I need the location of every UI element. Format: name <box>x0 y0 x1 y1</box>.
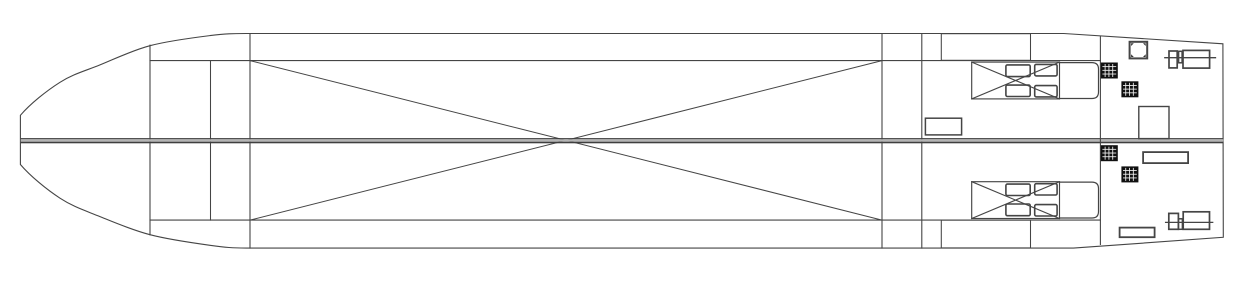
hull outline <box>20 34 1223 249</box>
winch top left drum <box>1169 51 1177 68</box>
engine top inner rect 4 <box>1035 86 1057 97</box>
winch top shaft <box>1165 57 1216 59</box>
centerline bottom edge <box>21 142 1224 144</box>
engine casing top diagonal 1 <box>972 62 1060 99</box>
engine casing top diagonal 2 <box>972 62 1060 99</box>
grating B top <box>1121 81 1138 97</box>
bow frame vertical 1 <box>149 45 151 235</box>
winch bottom left drum <box>1169 213 1179 229</box>
winch bottom mid piece <box>1178 219 1182 230</box>
engine casing bottom outer rect <box>972 182 1060 219</box>
engine bottom inner rect 3 <box>1006 204 1030 216</box>
engine bottom inner rect 4 <box>1035 205 1057 216</box>
aft wide rect below centerline <box>1143 152 1188 163</box>
centerline gray band <box>21 139 1224 141</box>
midship small rect <box>925 118 961 135</box>
deck line bottom <box>150 219 1100 221</box>
aft deck bulkhead <box>1099 36 1101 244</box>
engine top inner rect 1 <box>1006 65 1030 77</box>
aft bulkhead 2 <box>921 34 923 249</box>
winch bottom shaft <box>1166 221 1213 223</box>
winch top body <box>1183 50 1210 68</box>
engine casing bottom diagonal 2 <box>972 182 1060 219</box>
grating A bottom <box>1101 145 1118 161</box>
engine bottom inner rect 2 <box>1035 184 1057 195</box>
cargo hold diagonal 2 <box>250 61 882 221</box>
engine bottom inner rect 1 <box>1006 184 1030 195</box>
cargo hold diagonal 1 <box>250 61 882 221</box>
engine top inner rect 3 <box>1006 85 1030 96</box>
engine casing top outer rect <box>972 62 1060 99</box>
deck line top <box>150 60 1100 62</box>
superstructure top <box>941 34 1030 61</box>
bow frame vertical 2 <box>210 61 212 221</box>
superstructure bottom <box>941 220 1030 248</box>
winch top mid piece <box>1179 51 1183 63</box>
aft low rect <box>1120 228 1155 238</box>
winch bottom body <box>1183 212 1209 230</box>
grating A top <box>1101 63 1118 79</box>
hold forward bulkhead <box>249 34 251 249</box>
centerline top edge <box>21 138 1224 139</box>
grating B bottom <box>1121 166 1138 182</box>
engine top inner rect 2 <box>1035 64 1057 76</box>
aft plain square on centerline <box>1139 107 1169 139</box>
engine casing bottom rounded annex <box>1060 182 1099 218</box>
engine casing bottom diagonal 1 <box>972 182 1060 219</box>
hold aft bulkhead <box>881 34 883 249</box>
hatch square with corner marks <box>1130 42 1148 59</box>
engine casing top rounded annex <box>1060 63 1099 99</box>
